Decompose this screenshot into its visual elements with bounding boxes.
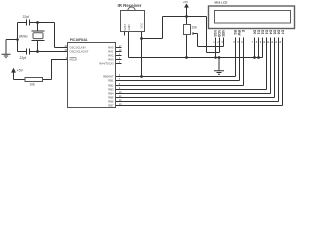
svg-text:+5V: +5V (183, 0, 188, 4)
svg-text:10k: 10k (30, 82, 36, 86)
svg-text:RB6: RB6 (108, 100, 114, 104)
svg-text:RB1: RB1 (108, 79, 114, 83)
svg-text:22pf: 22pf (23, 15, 30, 19)
svg-text:D0: D0 (253, 30, 257, 34)
svg-text:RB5: RB5 (108, 96, 114, 100)
svg-text:RA4/TOCKI: RA4/TOCKI (99, 62, 113, 66)
svg-text:RA1: RA1 (108, 50, 114, 54)
svg-text:+5V: +5V (17, 69, 24, 73)
svg-text:VCC: VCC (140, 23, 144, 29)
svg-text:D5: D5 (273, 30, 277, 34)
svg-text:D2: D2 (261, 30, 265, 34)
svg-text:D3: D3 (265, 30, 269, 34)
svg-text:D7: D7 (281, 30, 285, 34)
svg-text:PIC16F84A: PIC16F84A (70, 38, 88, 42)
svg-text:RA2: RA2 (108, 54, 114, 58)
svg-text:IR Receiver: IR Receiver (118, 3, 142, 8)
svg-text:VEE: VEE (221, 30, 225, 37)
svg-text:22pf: 22pf (20, 56, 27, 60)
svg-text:GND: GND (127, 24, 131, 30)
svg-text:D4: D4 (269, 30, 273, 34)
svg-text:RB7: RB7 (108, 104, 114, 108)
svg-text:RB2: RB2 (108, 84, 114, 88)
svg-text:RB3: RB3 (108, 88, 114, 92)
svg-text:D1: D1 (257, 30, 261, 34)
svg-text:8MHz: 8MHz (19, 35, 28, 39)
svg-text:RB0/INT: RB0/INT (103, 75, 114, 79)
svg-text:RA3: RA3 (108, 58, 114, 62)
svg-text:DATA: DATA (123, 24, 127, 31)
svg-text:RA0: RA0 (108, 46, 114, 50)
svg-text:D6: D6 (277, 30, 281, 34)
svg-text:OSC1/CLKIN: OSC1/CLKIN (70, 45, 86, 49)
svg-text:MCLR: MCLR (70, 57, 78, 61)
svg-text:RW: RW (237, 30, 241, 36)
svg-text:OSC2/CLKOUT: OSC2/CLKOUT (70, 49, 89, 53)
svg-text:VDD: VDD (217, 30, 221, 38)
svg-text:10k: 10k (192, 26, 198, 30)
svg-text:RS: RS (233, 30, 237, 35)
svg-text:RB4: RB4 (108, 92, 114, 96)
svg-text:VSS: VSS (213, 30, 217, 37)
svg-text:M16 LCD: M16 LCD (215, 1, 229, 5)
